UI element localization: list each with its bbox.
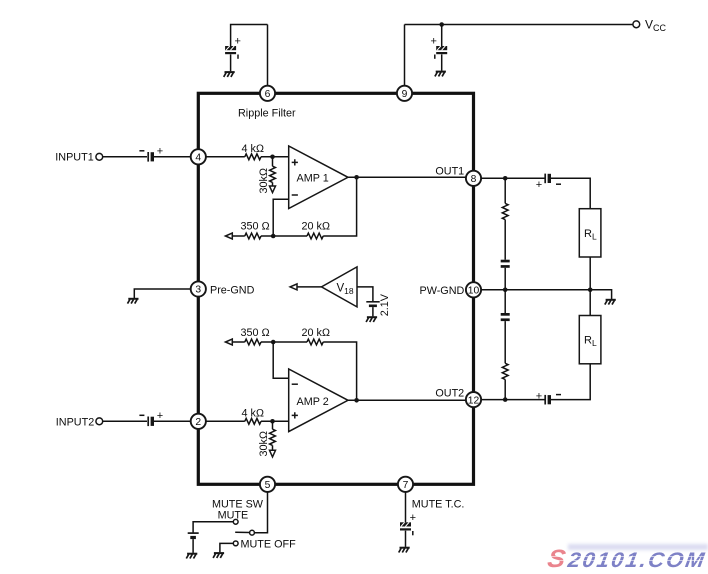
svg-text:7: 7	[403, 480, 409, 491]
node: AMP1 output junction	[354, 175, 359, 180]
svg-text:30kΩ: 30kΩ	[258, 168, 270, 194]
wire: top rail to Vcc	[405, 24, 633, 26]
node: feedback junction AMP1	[271, 234, 276, 239]
pin 8	[466, 171, 481, 186]
wire: zobel R9	[504, 178, 506, 203]
svg-text:+: +	[431, 36, 437, 48]
svg-text:3: 3	[195, 285, 201, 296]
wire: junction to C2	[441, 25, 443, 47]
ground (PW-GND)	[605, 300, 616, 305]
wire: R1 to AMP1 + input	[261, 156, 289, 158]
wire: C9 to RL1	[551, 178, 590, 208]
wire: C12z to R10	[504, 321, 506, 363]
wire: R3 to junction	[261, 235, 273, 237]
svg-text:350 Ω: 350 Ω	[241, 221, 270, 233]
capacitor C1 (ripple filter cap)	[225, 46, 236, 54]
wire: C1 to ground	[230, 54, 232, 71]
capacitor C6 (input 2 coupling)	[148, 417, 154, 427]
svg-text:4: 4	[195, 153, 201, 164]
capacitor C14 (mute time constant)	[400, 522, 411, 530]
resistor RL1 (load)	[579, 209, 601, 257]
pin 12	[466, 392, 481, 407]
C9 minus label	[556, 183, 561, 185]
pin 9	[397, 86, 412, 101]
arrow (R3 to internal)	[225, 233, 232, 239]
ground (C14)	[399, 548, 410, 553]
svg-text:4 kΩ: 4 kΩ	[242, 143, 265, 155]
capacitor C5 (input 1 coupling)	[148, 152, 154, 162]
wire: V18 out to C7	[357, 287, 373, 301]
svg-text:20 kΩ: 20 kΩ	[302, 221, 331, 233]
wire: pin 12 to C10	[481, 399, 544, 401]
wire: RL1 to PW-GND rail	[589, 257, 591, 290]
wire: pin3 to ground	[134, 289, 190, 298]
resistor R8 30k	[270, 429, 276, 445]
svg-text:AMP 1: AMP 1	[297, 172, 329, 184]
pin 7	[398, 477, 413, 492]
terminal INPUT2	[96, 418, 103, 425]
wire: C6 to pin 2	[154, 420, 191, 422]
C6 minus label	[139, 414, 144, 416]
wire: junction to R6	[273, 341, 307, 343]
IC body outline	[198, 93, 473, 484]
wire: R8 to arrow	[272, 445, 274, 450]
capacitor C11 (zobel 1)	[501, 260, 510, 268]
switch SW1 MUTE contact	[233, 519, 238, 524]
op-amp AMP2	[289, 369, 348, 432]
ground (Pre-GND)	[128, 299, 139, 304]
pin 4	[191, 149, 206, 164]
svg-text:30kΩ: 30kΩ	[258, 431, 270, 457]
wire: pin 8 to C9	[481, 177, 544, 179]
svg-text:8: 8	[471, 174, 477, 185]
svg-text:9: 9	[402, 89, 408, 100]
resistor R9 (zobel 1)	[502, 203, 508, 219]
svg-text:6: 6	[265, 89, 271, 100]
resistor R10 (zobel 2)	[502, 363, 508, 379]
switch SW1 arm	[235, 531, 249, 533]
svg-text:20 kΩ: 20 kΩ	[302, 327, 331, 339]
resistor R5 350	[245, 339, 261, 345]
C2 minus label	[434, 55, 436, 59]
ground (C7)	[366, 317, 377, 322]
node: Vcc rail / C2 junction	[439, 22, 444, 27]
svg-text:+: +	[536, 390, 542, 402]
wire: arrow to R3	[232, 235, 245, 237]
resistor RL2 (load)	[579, 316, 601, 364]
wire: pin 10 to ground	[481, 290, 611, 299]
switch SW1 common contact	[250, 530, 255, 535]
capacitor C12z (zobel 2)	[501, 313, 510, 321]
node: R1/R2 junction	[270, 155, 275, 160]
svg-text:350 Ω: 350 Ω	[241, 327, 270, 339]
wire: AMP1 output to pin 8	[348, 176, 466, 178]
svg-text:OUT1: OUT1	[435, 165, 464, 177]
wire: junction to R4	[273, 235, 307, 237]
pin 2	[191, 414, 206, 429]
wire: junction down to R2	[272, 157, 274, 166]
wire: C13 to ground	[192, 539, 194, 553]
ground (C13)	[186, 554, 197, 559]
svg-text:+: +	[536, 179, 542, 191]
node: RL junction on PW-GND rail	[588, 288, 593, 293]
svg-text:MUTE T.C.: MUTE T.C.	[412, 499, 465, 511]
wire: R2 to arrow	[272, 182, 274, 186]
svg-text:MUTE: MUTE	[218, 510, 249, 522]
resistor R2 30k	[270, 166, 276, 182]
arrow (V18 to internal)	[290, 284, 297, 290]
wire: arrow to R5	[232, 341, 245, 343]
wire: R9 to C11	[504, 220, 506, 260]
wire: AMP2 output to pin 12	[348, 399, 466, 401]
wire: R6 down to AMP2 output	[323, 342, 356, 400]
pin 3	[191, 281, 206, 296]
wire: AMP2 - input feedback	[273, 342, 289, 378]
svg-text:2: 2	[195, 417, 201, 428]
svg-text:MUTE OFF: MUTE OFF	[241, 539, 297, 551]
svg-text:+: +	[157, 410, 163, 422]
op-amp AMP1	[289, 146, 348, 209]
pin 10	[466, 282, 481, 297]
capacitor C10 (out 2 coupling)	[545, 395, 551, 405]
svg-text:+: +	[410, 512, 416, 524]
terminal Vcc	[633, 21, 640, 28]
pin 6	[260, 86, 275, 101]
wire: RL2 to OUT2 rail	[551, 364, 590, 400]
watermark S20101.COM	[546, 545, 708, 569]
wire: pin9 to top rail	[404, 25, 406, 86]
svg-text:MUTE SW: MUTE SW	[212, 498, 264, 510]
svg-text:10: 10	[468, 286, 480, 297]
terminal INPUT1	[96, 153, 103, 160]
wire: INPUT1 to C5	[103, 156, 147, 158]
wire: MUTE contact to C13	[193, 522, 233, 533]
svg-text:5: 5	[265, 480, 271, 491]
wire: C14 to ground	[405, 531, 407, 547]
svg-text:+: +	[157, 146, 163, 158]
svg-text:4 kΩ: 4 kΩ	[242, 407, 265, 419]
ground (C2)	[435, 72, 446, 77]
capacitor C9 (out 1 coupling)	[545, 174, 551, 184]
svg-text:12: 12	[468, 395, 480, 406]
svg-text:Ripple Filter: Ripple Filter	[238, 107, 296, 119]
node: R7/R8 junction	[270, 419, 275, 424]
wire: INPUT2 to C6	[103, 420, 147, 422]
wire: pin 5 down to switch	[254, 492, 267, 533]
capacitor C2 (Vcc bypass)	[436, 46, 447, 54]
wire: top-left rail to C1	[231, 25, 268, 47]
arrow (R8 to internal bias)	[270, 450, 276, 457]
arrow (R5 to internal)	[225, 339, 232, 345]
wire: pin6 to top rail	[267, 25, 269, 86]
svg-text:INPUT2: INPUT2	[56, 416, 94, 428]
C5 minus label	[139, 150, 144, 152]
wire: R10 to OUT2 rail	[504, 380, 506, 400]
wire: pin 7 to C14	[405, 492, 407, 522]
wire: junction down to R8	[272, 421, 274, 429]
C14 minus label	[412, 531, 414, 535]
resistor R4 20k	[307, 233, 323, 239]
wire: PW-GND rail to RL2	[589, 290, 591, 316]
switch SW1 MUTE OFF contact	[233, 541, 238, 546]
capacitor C7 (2.1V bypass)	[366, 302, 379, 307]
ground (C1)	[224, 72, 235, 77]
wire: AMP1 - input feedback	[273, 199, 289, 236]
wire: C7 to ground	[372, 307, 374, 316]
capacitor C13 (mute)	[188, 533, 199, 539]
buffer V18	[322, 267, 358, 307]
wire: R7 to AMP2 + input	[261, 420, 289, 422]
wire: R5 to junction	[261, 341, 273, 343]
wire: V18 apex to arrow	[297, 286, 322, 288]
arrow (R2 to internal bias)	[270, 186, 276, 193]
wire: C2 to ground	[441, 54, 443, 70]
wire: C5 to pin 4	[154, 156, 191, 158]
svg-text:VCC: VCC	[645, 18, 667, 33]
node: zobel 1 top junction	[503, 176, 508, 181]
wire: R4 up to AMP1 output	[323, 177, 356, 236]
wire: pin 4 to R1	[206, 156, 245, 158]
node: zobel 2 bottom junction	[503, 397, 508, 402]
svg-text:AMP 2: AMP 2	[297, 396, 329, 408]
wire: pin 2 to R7	[206, 420, 245, 422]
svg-text:INPUT1: INPUT1	[55, 152, 93, 164]
node: AMP2 output junction	[354, 398, 359, 403]
pin 5	[260, 477, 275, 492]
wire: PW-GND rail to C12z	[504, 290, 506, 313]
node: feedback junction AMP2	[271, 340, 276, 345]
resistor R6 20k	[307, 339, 323, 345]
wire: MUTE OFF contact to ground	[220, 543, 233, 552]
watermark ghost	[568, 544, 708, 550]
node: zobel junction on PW-GND rail	[503, 288, 508, 293]
svg-text:OUT2: OUT2	[435, 387, 464, 399]
wire: C11 to PW-GND rail	[504, 268, 506, 290]
svg-text:+: +	[235, 36, 241, 48]
resistor R3 350	[245, 233, 261, 239]
svg-text:Pre-GND: Pre-GND	[210, 285, 255, 297]
C10 minus label	[556, 394, 561, 396]
resistor R7 4k	[245, 418, 261, 424]
svg-text:PW-GND: PW-GND	[420, 285, 465, 297]
svg-text:2.1V: 2.1V	[379, 293, 391, 316]
resistor R1 4k	[245, 154, 261, 160]
C1 minus label	[237, 55, 239, 59]
ground (MUTE OFF)	[213, 553, 224, 558]
